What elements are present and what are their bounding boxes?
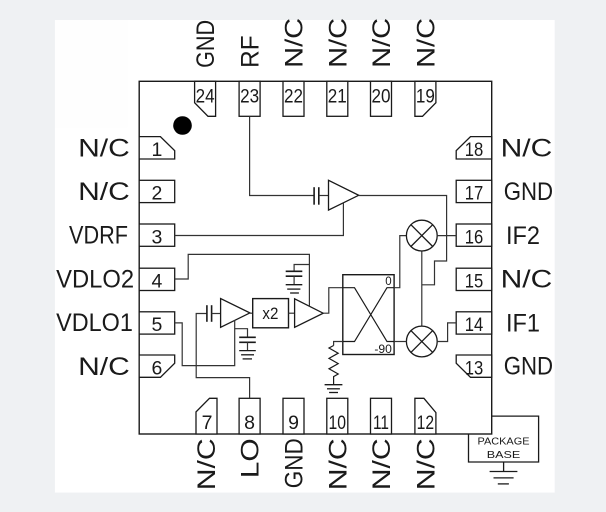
svg-text:N/C: N/C [368,18,396,68]
svg-text:N/C: N/C [281,18,309,68]
capacitor VDLO1 bypass [239,337,256,342]
pin 1 marker dot [173,116,192,135]
svg-text:13: 13 [465,357,484,379]
svg-text:23: 23 [240,85,259,107]
op-amp RF amplifier [329,180,359,210]
wire LO from pin 8 [196,314,249,399]
wire x2 to amp2 [289,312,295,314]
wire amp2 to hybrid [323,288,343,314]
resistor termination [329,346,338,385]
pin 17 [456,180,492,204]
op-amp LO amplifier 1 [221,299,250,328]
svg-text:VDLO1: VDLO1 [56,309,133,337]
wire LO amp1 to x2 [250,312,253,314]
package base box (bottom-right, partially behind package) [469,416,539,462]
pin 22 [283,81,304,116]
svg-text:IF2: IF2 [506,222,540,250]
svg-text:BASE: BASE [487,449,521,461]
svg-text:16: 16 [465,226,484,248]
ground VDLO1 bypass [239,351,256,359]
svg-text:IF1: IF1 [506,309,540,337]
wire hybrid -90 port to mixer 2 [394,341,406,343]
svg-text:6: 6 [151,357,162,379]
pin 6 [139,355,175,379]
pin 14 [456,312,492,336]
svg-text:18: 18 [465,139,484,161]
pin 7 [196,398,217,434]
svg-text:14: 14 [465,314,484,336]
wire VDLO1 bypass tap [235,329,248,338]
svg-text:RF: RF [237,35,265,68]
package outline [139,81,492,434]
wire VDLO1 from pin 5 [175,320,235,366]
svg-text:GND: GND [192,20,220,68]
wire hybrid termination [334,342,343,346]
pin 21 [327,81,348,116]
svg-text:N/C: N/C [78,134,130,162]
wire mixer interconnect RF [421,251,423,326]
capacitor VDLO2 bypass [286,271,303,276]
wire RF amp output to mixers [359,196,447,285]
svg-text:9: 9 [288,412,299,434]
pin 24 [195,81,216,116]
svg-text:N/C: N/C [193,438,221,490]
package base label [478,435,530,461]
svg-text:24: 24 [196,85,215,107]
svg-text:N/C: N/C [78,353,130,381]
op-amp LO amplifier 2 [295,299,324,328]
pin 15 [456,268,492,292]
svg-text:x2: x2 [262,304,278,323]
svg-text:0: 0 [385,276,391,288]
wire VDLO2 bypass to ground [293,276,295,285]
svg-text:LO: LO [237,438,265,478]
svg-text:4: 4 [151,271,162,293]
pin 19 [415,81,436,116]
pin 11 [371,398,392,434]
svg-text:7: 7 [202,412,213,434]
svg-text:N/C: N/C [324,18,352,68]
svg-text:N/C: N/C [78,178,130,206]
svg-text:N/C: N/C [324,438,352,490]
pin 8 [239,398,260,434]
pin 12 [415,398,436,434]
svg-text:1: 1 [151,139,162,161]
svg-text:11: 11 [373,412,389,434]
wire VDLO2 bypass tap [294,265,309,272]
svg-text:15: 15 [465,271,484,293]
wire cap to LO amp [212,313,221,315]
ground under package base [490,462,518,484]
svg-text:22: 22 [284,85,303,107]
svg-text:20: 20 [372,85,391,107]
svg-text:12: 12 [417,412,435,434]
svg-text:19: 19 [416,85,435,107]
svg-text:VDRF: VDRF [69,222,128,250]
svg-text:21: 21 [328,85,347,107]
pin 10 [327,398,348,434]
svg-text:8: 8 [244,412,255,434]
wire mixer1 to pin 16 [437,235,456,237]
svg-text:VDLO2: VDLO2 [56,265,134,293]
svg-text:GND: GND [504,178,553,206]
svg-text:N/C: N/C [368,438,396,490]
mixer M1 (IF2) [406,220,437,251]
wire hybrid 0-port to mixer 1 [394,236,406,288]
svg-text:3: 3 [151,226,162,248]
pin 5 [139,312,175,336]
pin 18 [456,137,492,161]
pin 13 [456,355,492,379]
wire VDLO2 from pin 4 [175,254,310,306]
white drawing sheet [55,20,555,493]
mixer M2 (IF1) [406,326,437,357]
pin 3 [139,224,175,248]
pin 23 [239,81,260,116]
svg-text:N/C: N/C [501,134,553,162]
wire RF from pin 23 [250,116,315,195]
pin 1 [139,137,175,161]
svg-text:GND: GND [281,438,309,488]
wire mixer2 to pin 14 [437,323,456,342]
wire cap to RF amp [319,195,329,197]
svg-text:10: 10 [329,412,347,434]
pin 2 [139,180,175,204]
capacitor LO input [207,305,212,322]
svg-text:N/C: N/C [501,266,553,294]
capacitor RF input [314,187,319,205]
svg-text:N/C: N/C [412,438,440,490]
svg-text:PACKAGE: PACKAGE [478,435,530,447]
svg-text:2: 2 [151,183,162,205]
frequency doubler x2 [253,299,289,328]
wire VDRF from pin 3 [175,203,344,236]
pin 9 [283,398,304,434]
ground VDLO2 bypass [286,285,303,293]
svg-text:5: 5 [151,314,162,336]
pin 4 [139,268,175,292]
pin 16 [456,224,492,248]
hybrid 90-degree splitter [343,275,394,357]
pin 20 [371,81,392,116]
svg-text:GND: GND [504,353,553,381]
svg-text:17: 17 [465,183,484,205]
svg-text:-90: -90 [374,344,392,356]
svg-text:N/C: N/C [412,18,440,68]
wire bypass cap to ground [247,342,249,350]
ground resistor [325,385,343,393]
